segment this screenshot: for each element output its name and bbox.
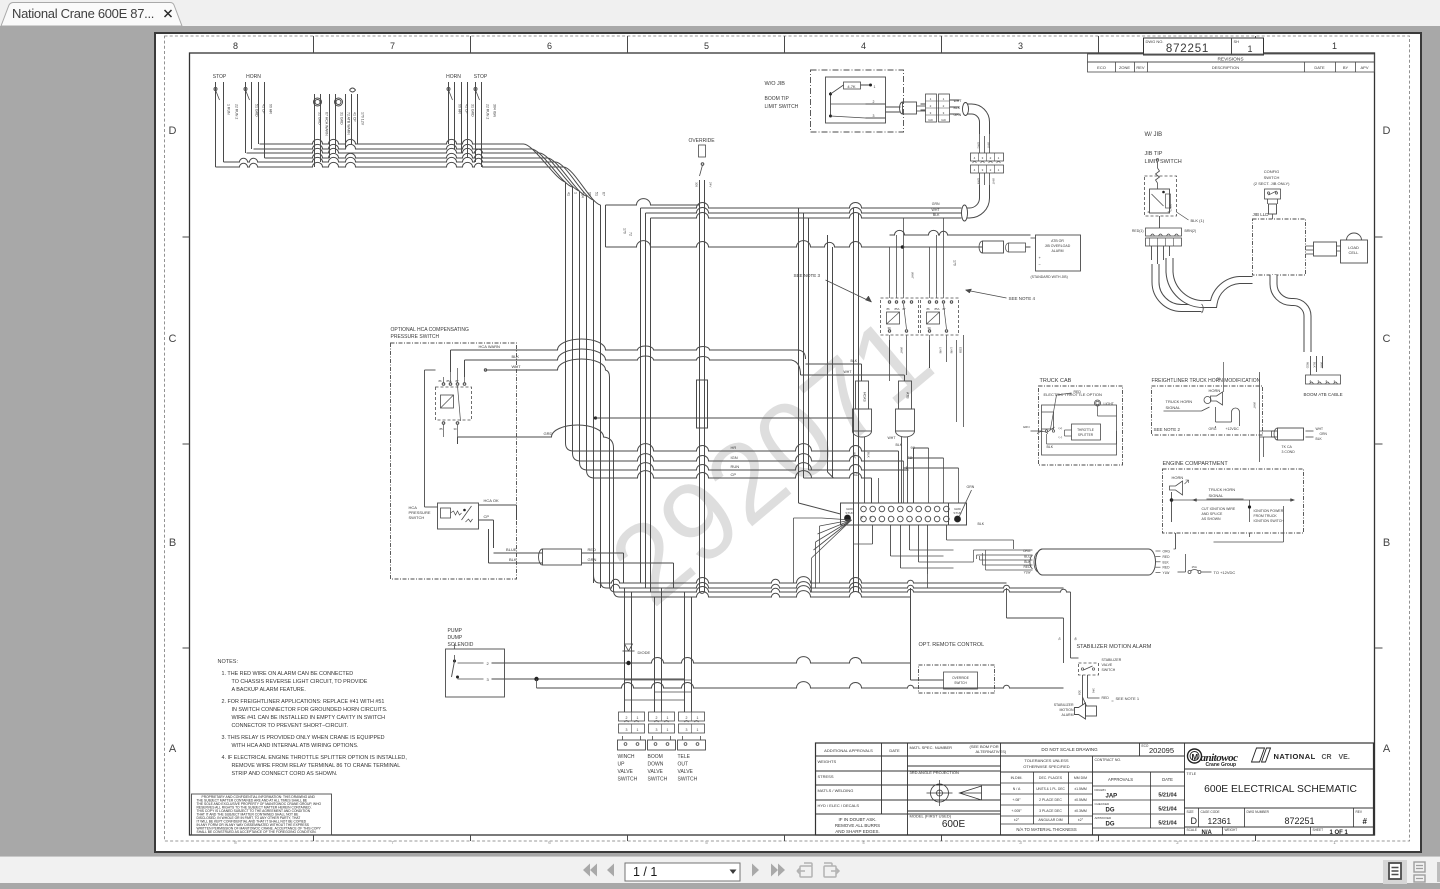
svg-text:THROTTLE: THROTTLE xyxy=(1077,428,1094,432)
svg-text:ADDITIONAL APPROVALS: ADDITIONAL APPROVALS xyxy=(824,748,873,753)
svg-text:SEE NOTE 1: SEE NOTE 1 xyxy=(1115,696,1139,701)
svg-text:OTHERWISE SPECIFIED: OTHERWISE SPECIFIED xyxy=(1023,764,1069,769)
svg-text:2: 2 xyxy=(655,716,657,720)
svg-text:SH: SH xyxy=(1233,39,1239,44)
svg-text:3 PLACE DEC: 3 PLACE DEC xyxy=(1039,809,1062,813)
svg-text:OVERRIDE: OVERRIDE xyxy=(688,138,715,144)
svg-text:STOP: STOP xyxy=(212,74,226,80)
svg-text:±1.5MM: ±1.5MM xyxy=(1074,787,1087,791)
svg-text:TO +12VDC: TO +12VDC xyxy=(1213,570,1235,575)
svg-text:IN.DIM.: IN.DIM. xyxy=(1010,776,1022,780)
svg-text:2: 2 xyxy=(942,104,944,108)
svg-text:N / A: N / A xyxy=(1012,787,1020,791)
svg-text:4.7K: 4.7K xyxy=(847,84,856,89)
svg-text:SWITCH: SWITCH xyxy=(408,515,424,520)
svg-text:179: 179 xyxy=(952,260,956,266)
svg-text:72 ATB WARN: 72 ATB WARN xyxy=(346,112,350,135)
svg-text:SWITCH: SWITCH xyxy=(677,777,697,783)
svg-text:WEIGHT: WEIGHT xyxy=(1224,828,1237,832)
svg-text:8: 8 xyxy=(234,840,237,845)
svg-text:85A: 85A xyxy=(894,307,899,311)
svg-text:1: 1 xyxy=(929,97,931,101)
svg-text:ANGULAR DIM: ANGULAR DIM xyxy=(1038,818,1062,822)
svg-text:GRN: GRN xyxy=(1022,425,1029,429)
svg-text:BOOM: BOOM xyxy=(647,754,662,760)
svg-text:15A: 15A xyxy=(1191,565,1196,569)
svg-text:4: 4 xyxy=(862,840,865,845)
svg-text:APV: APV xyxy=(1360,65,1368,70)
svg-text:3: 3 xyxy=(1019,840,1022,845)
svg-text:SPLITTER: SPLITTER xyxy=(1077,433,1093,437)
svg-text:FROM TRUCK: FROM TRUCK xyxy=(1253,514,1277,518)
svg-text:YLW: YLW xyxy=(1162,571,1170,575)
svg-text:C: C xyxy=(1382,333,1390,345)
svg-text:DG: DG xyxy=(1105,808,1114,814)
svg-text:+.08°: +.08° xyxy=(1012,798,1021,802)
svg-text:LHM: LHM xyxy=(949,347,953,354)
svg-text:WHT: WHT xyxy=(991,178,995,185)
svg-text:GD: GD xyxy=(941,118,946,122)
svg-text:WHT: WHT xyxy=(1319,362,1323,369)
svg-text:600E ELECTRICAL SCHEMATIC: 600E ELECTRICAL SCHEMATIC xyxy=(1204,784,1357,795)
svg-text:ZONE: ZONE xyxy=(1118,65,1129,70)
svg-text:WHT: WHT xyxy=(1315,427,1323,431)
svg-text:99 HR: 99 HR xyxy=(457,104,461,114)
svg-text:B: B xyxy=(168,537,175,549)
svg-text:RED: RED xyxy=(587,547,596,552)
svg-text:DESCRIPTION: DESCRIPTION xyxy=(1211,65,1238,70)
svg-text:3: 3 xyxy=(625,728,627,732)
svg-text:LIMIT SWITCH: LIMIT SWITCH xyxy=(764,104,798,110)
svg-text:86: 86 xyxy=(438,379,442,383)
svg-text:DATE: DATE xyxy=(1162,777,1173,782)
svg-text:BLK: BLK xyxy=(1046,445,1053,449)
svg-text:CAGE CODE: CAGE CODE xyxy=(1200,810,1219,814)
svg-text:1 RUN: 1 RUN xyxy=(226,104,230,115)
svg-text:41 CP: 41 CP xyxy=(352,112,356,122)
svg-text:TELE: TELE xyxy=(677,754,690,760)
svg-text:HCA WARN: HCA WARN xyxy=(478,344,500,349)
svg-text:NATIONAL: NATIONAL xyxy=(1273,752,1315,761)
svg-text:FREIGHTLINER TRUCK HORN MOD: FREIGHTLINER TRUCK HORN MODIFICATION xyxy=(1151,378,1260,384)
svg-text:SIZE: SIZE xyxy=(1186,810,1193,814)
svg-text:4: 4 xyxy=(973,156,975,160)
svg-text:1: 1 xyxy=(636,716,638,720)
svg-text:REVISIONS: REVISIONS xyxy=(1217,57,1243,63)
svg-text:DO NOT SCALE DRAWING: DO NOT SCALE DRAWING xyxy=(1041,747,1098,752)
svg-text:51: 51 xyxy=(594,192,598,196)
svg-text:3: 3 xyxy=(929,111,931,115)
svg-text:D: D xyxy=(168,125,176,137)
svg-text:30: 30 xyxy=(887,326,891,330)
svg-text:±2°: ±2° xyxy=(1077,818,1083,822)
svg-text:41 CP: 41 CP xyxy=(261,104,265,114)
svg-text:SOLENOID: SOLENOID xyxy=(447,642,473,648)
svg-text:BLK: BLK xyxy=(1312,362,1316,368)
svg-text:1: 1 xyxy=(636,728,638,732)
svg-text:RED: RED xyxy=(1101,696,1109,700)
svg-text:GRN: GRN xyxy=(931,202,939,206)
svg-text:MAT'LS / WELDING: MAT'LS / WELDING xyxy=(817,788,853,793)
svg-text:DOWN: DOWN xyxy=(647,762,663,768)
svg-text:51 GRD: 51 GRD xyxy=(254,104,258,117)
svg-text:M: M xyxy=(1191,753,1198,762)
svg-text:TO CHASSIS REVERSE LIGHT CIRCU: TO CHASSIS REVERSE LIGHT CIRCUIT, TO PRO… xyxy=(231,679,367,685)
svg-text:DRAWN: DRAWN xyxy=(1094,788,1105,792)
svg-text:1: 1 xyxy=(696,716,698,720)
svg-text:DATE: DATE xyxy=(889,748,900,753)
svg-text:WHT: WHT xyxy=(899,347,903,354)
svg-text:VALVE: VALVE xyxy=(677,769,693,775)
svg-text:IGN: IGN xyxy=(730,455,737,460)
svg-text:SWITCH: SWITCH xyxy=(617,777,637,783)
svg-text:3: 3 xyxy=(655,728,657,732)
svg-text:5/21/04: 5/21/04 xyxy=(1158,821,1177,827)
svg-text:LHM: LHM xyxy=(938,347,942,354)
svg-text:346: 346 xyxy=(1091,688,1095,693)
svg-text:CONNECTOR TO PREVENT SHORT−CIR: CONNECTOR TO PREVENT SHORT−CIRCUIT. xyxy=(231,723,347,729)
svg-text:GRN: GRN xyxy=(587,557,596,562)
svg-text:3: 3 xyxy=(942,111,944,115)
svg-text:MAT'L SPEC. NUMBER: MAT'L SPEC. NUMBER xyxy=(909,745,952,750)
svg-text:CP: CP xyxy=(730,472,736,477)
svg-text:4: 4 xyxy=(860,41,865,51)
svg-text:SIGNAL: SIGNAL xyxy=(1165,405,1180,410)
svg-text:7: 7 xyxy=(389,41,394,51)
svg-text:SWITCH: SWITCH xyxy=(1101,668,1115,672)
svg-text:TOLERANCES UNLESS: TOLERANCES UNLESS xyxy=(1024,758,1068,763)
svg-text:HORN: HORN xyxy=(446,74,461,80)
svg-text:2: 2 xyxy=(1176,840,1179,845)
svg-text:ENGINE COMPARTMENT: ENGINE COMPARTMENT xyxy=(1162,461,1228,467)
svg-text:85: 85 xyxy=(439,427,443,431)
svg-text:VALVE: VALVE xyxy=(617,769,633,775)
svg-text:±2°: ±2° xyxy=(1013,818,1019,822)
svg-text:SWITCH: SWITCH xyxy=(647,777,667,783)
svg-text:WITH HCA AND INTERNAL ATB WIRI: WITH HCA AND INTERNAL ATB WIRING OPTIONS… xyxy=(231,743,358,749)
svg-text:45: 45 xyxy=(1073,637,1077,641)
svg-text:1: 1 xyxy=(873,85,875,89)
svg-text:STOP: STOP xyxy=(473,74,487,80)
svg-text:3: 3 xyxy=(981,168,983,172)
svg-text:872251: 872251 xyxy=(1165,43,1208,55)
svg-text:DWG NO.: DWG NO. xyxy=(1145,39,1163,44)
svg-text:N/A TO MATERIAL THICKNESS: N/A TO MATERIAL THICKNESS xyxy=(1016,827,1076,832)
svg-text:JIB LLD: JIB LLD xyxy=(1252,212,1269,217)
svg-text:AND SPLICE: AND SPLICE xyxy=(1201,512,1222,516)
svg-text:C: C xyxy=(168,333,176,345)
svg-text:HCAS: HCAS xyxy=(862,392,866,402)
svg-text:WHT: WHT xyxy=(887,436,896,440)
svg-text:MODEL (FIRST USED): MODEL (FIRST USED) xyxy=(909,814,951,819)
svg-text:12361: 12361 xyxy=(1207,816,1231,826)
svg-text:GRN: GRN xyxy=(1319,432,1327,436)
svg-text:179: 179 xyxy=(622,228,626,234)
svg-text:5/21/04: 5/21/04 xyxy=(1158,807,1177,813)
svg-text:BLK: BLK xyxy=(508,557,516,562)
svg-text:A: A xyxy=(1382,743,1390,755)
svg-text:2 PLACE DEC: 2 PLACE DEC xyxy=(1039,798,1062,802)
svg-text:WHT: WHT xyxy=(986,142,990,149)
svg-text:BLK: BLK xyxy=(1315,437,1322,441)
svg-text:+: + xyxy=(1038,255,1041,260)
svg-text:41: 41 xyxy=(853,472,858,477)
svg-text:±0.3MM: ±0.3MM xyxy=(1074,809,1087,813)
svg-text:22 RUN 2: 22 RUN 2 xyxy=(234,104,238,119)
svg-text:WHT: WHT xyxy=(910,272,914,279)
svg-text:LIGHT: LIGHT xyxy=(1103,402,1114,406)
svg-text:202095: 202095 xyxy=(1148,746,1173,755)
svg-text:3: 3 xyxy=(685,728,687,732)
svg-text:1: 1 xyxy=(997,156,999,160)
svg-text:STRIP AND CONNECT CORD AS SHOW: STRIP AND CONNECT CORD AS SHOWN. xyxy=(231,771,337,777)
svg-text:JIB TIP: JIB TIP xyxy=(1144,151,1162,157)
svg-text:STRESS: STRESS xyxy=(817,774,833,779)
svg-text:2: 2 xyxy=(989,156,991,160)
svg-text:WHT: WHT xyxy=(931,208,940,212)
svg-text:87: 87 xyxy=(902,307,906,311)
svg-text:SEE NOTE 2: SEE NOTE 2 xyxy=(1153,427,1180,432)
svg-text:HR: HR xyxy=(730,445,736,450)
svg-text:REMOVE ALL BURRS: REMOVE ALL BURRS xyxy=(834,823,879,828)
svg-text:1: 1 xyxy=(997,168,999,172)
svg-text:CHECKED: CHECKED xyxy=(1094,802,1110,806)
svg-text:ECO: ECO xyxy=(1097,65,1106,70)
svg-text:BOOM ATB CABLE: BOOM ATB CABLE xyxy=(1303,392,1342,397)
svg-text:±0.5MM: ±0.5MM xyxy=(1074,798,1087,802)
svg-text:W/O JIB: W/O JIB xyxy=(764,81,785,87)
svg-text:31 GRD: 31 GRD xyxy=(339,112,343,125)
svg-text:SIGNAL: SIGNAL xyxy=(1208,493,1223,498)
svg-text:GRD: GRD xyxy=(543,431,552,436)
svg-text:1: 1 xyxy=(1331,41,1336,51)
svg-text:DUMP: DUMP xyxy=(447,635,462,641)
svg-text:NOTES:: NOTES: xyxy=(217,659,238,665)
svg-text:MM DIM: MM DIM xyxy=(1073,776,1086,780)
svg-text:30: 30 xyxy=(927,326,931,330)
svg-text:RED: RED xyxy=(1162,555,1170,559)
svg-text:OUT: OUT xyxy=(677,762,688,768)
svg-text:1: 1 xyxy=(666,728,668,732)
svg-text:3 COND: 3 COND xyxy=(1281,450,1295,454)
svg-text:TK CA: TK CA xyxy=(1281,445,1292,449)
svg-text:31 GRD: 31 GRD xyxy=(470,104,474,117)
svg-text:3RD ANGLE PROJECTION: 3RD ANGLE PROJECTION xyxy=(909,770,958,775)
svg-text:SEE NOTE 3: SEE NOTE 3 xyxy=(793,273,820,278)
svg-text:BLK: BLK xyxy=(850,359,857,363)
svg-text:2: 2 xyxy=(685,716,687,720)
svg-text:87: 87 xyxy=(942,307,946,311)
svg-text:6: 6 xyxy=(546,41,551,51)
svg-text:BLK: BLK xyxy=(866,452,870,458)
svg-text:304 IGN: 304 IGN xyxy=(492,104,496,118)
svg-text:67: 67 xyxy=(601,192,605,196)
svg-text:85A: 85A xyxy=(934,307,939,311)
svg-text:CONFIG: CONFIG xyxy=(1263,169,1279,174)
svg-text:DEC. PLACES: DEC. PLACES xyxy=(1038,776,1062,780)
svg-text:(+): (+) xyxy=(1058,426,1062,430)
svg-text:WIRE #41 CAN BE INSTALLED IN E: WIRE #41 CAN BE INSTALLED IN EMPTY CAVIT… xyxy=(231,715,385,721)
svg-text:A BACKUP ALARM FEATURE.: A BACKUP ALARM FEATURE. xyxy=(231,687,305,693)
svg-text:1: 1 xyxy=(1247,44,1252,54)
svg-text:VALVE: VALVE xyxy=(647,769,663,775)
svg-text:22 RUN 2: 22 RUN 2 xyxy=(485,104,489,119)
svg-text:SHALL BE CONSTRUED AS ACCEPTAN: SHALL BE CONSTRUED AS ACCEPTANCE OF THE … xyxy=(196,830,316,834)
svg-text:22: 22 xyxy=(1216,377,1220,381)
svg-text:2: 2 xyxy=(929,104,931,108)
svg-text:DG: DG xyxy=(1105,822,1114,828)
svg-text:CONTRACT NO.: CONTRACT NO. xyxy=(1094,758,1121,762)
svg-text:EDB: EDB xyxy=(958,347,962,353)
svg-text:STUD: STUD xyxy=(845,511,854,515)
svg-text:IN SWITCH CONNECTOR FOR GROUND: IN SWITCH CONNECTOR FOR GROUNDED HORN CI… xyxy=(231,707,387,713)
svg-text:99: 99 xyxy=(587,192,591,196)
svg-text:DIODE: DIODE xyxy=(637,650,650,655)
svg-text:(STANDARD WITH JIB): (STANDARD WITH JIB) xyxy=(1030,275,1067,279)
svg-text:HORN: HORN xyxy=(246,74,261,80)
svg-text:1 OF 1: 1 OF 1 xyxy=(1329,830,1348,836)
svg-text:292071: 292071 xyxy=(587,292,954,628)
svg-text:(−): (−) xyxy=(1058,435,1062,439)
svg-text:OVERRIDE: OVERRIDE xyxy=(952,676,969,680)
svg-text:#: # xyxy=(1362,817,1367,826)
svg-text:3: 3 xyxy=(1017,41,1022,51)
svg-text:4. IF ELECTRICAL ENGINE THRO: 4. IF ELECTRICAL ENGINE THROTTLE SPLITTE… xyxy=(221,755,407,761)
svg-text:8: 8 xyxy=(232,41,237,51)
svg-text:LIMIT SWITCH: LIMIT SWITCH xyxy=(1144,159,1181,165)
svg-text:TRUCK HORN: TRUCK HORN xyxy=(1208,487,1235,492)
svg-text:(2 SECT. JIB ONLY): (2 SECT. JIB ONLY) xyxy=(1253,181,1290,186)
svg-text:B: B xyxy=(1382,537,1389,549)
svg-text:WHT: WHT xyxy=(511,364,521,369)
svg-text:BRN(2): BRN(2) xyxy=(1184,229,1196,233)
svg-text:ORG: ORG xyxy=(1162,550,1170,554)
svg-text:SCALE: SCALE xyxy=(1186,828,1196,832)
svg-text:IF IN DOUBT ASK.: IF IN DOUBT ASK. xyxy=(838,817,876,822)
svg-text:31 GRD: 31 GRD xyxy=(317,112,321,125)
svg-text:309: 309 xyxy=(1077,690,1081,695)
svg-text:GRN: GRN xyxy=(976,178,980,184)
svg-text:41: 41 xyxy=(566,192,570,196)
svg-text:HORN: HORN xyxy=(1208,388,1220,393)
svg-text:308: 308 xyxy=(694,182,698,187)
svg-text:1: 1 xyxy=(696,728,698,732)
svg-text:YLW: YLW xyxy=(1023,571,1031,575)
svg-text:PUMP: PUMP xyxy=(447,628,462,634)
svg-text:ALTERNATIVES): ALTERNATIVES) xyxy=(975,749,1006,754)
svg-text:ALARM: ALARM xyxy=(1051,249,1063,253)
svg-text:24V: 24V xyxy=(708,182,712,187)
svg-text:1: 1 xyxy=(573,192,577,194)
svg-text:VALVE: VALVE xyxy=(1101,663,1112,667)
svg-text:3: 3 xyxy=(872,114,874,118)
svg-text:DWG NUMBER: DWG NUMBER xyxy=(1246,810,1269,814)
svg-text:IGNITION POWER: IGNITION POWER xyxy=(1253,509,1283,513)
svg-text:A: A xyxy=(168,743,176,755)
svg-text:ATB: ATB xyxy=(905,392,909,399)
svg-text:2: 2 xyxy=(625,716,627,720)
svg-text:600E: 600E xyxy=(941,819,965,830)
svg-text:WINCH: WINCH xyxy=(617,754,634,760)
svg-text:REV: REV xyxy=(1136,65,1145,70)
svg-text:67 HCA WARN: 67 HCA WARN xyxy=(324,112,328,136)
svg-text:41 CP: 41 CP xyxy=(464,104,468,114)
svg-text:D: D xyxy=(1382,125,1390,137)
svg-text:National Crane 600E 87...: National Crane 600E 87... xyxy=(12,6,154,21)
svg-text:GRN: GRN xyxy=(966,485,974,489)
svg-text:AND SHARP EDGES.: AND SHARP EDGES. xyxy=(835,829,879,834)
svg-text:RED: RED xyxy=(1073,390,1081,394)
svg-text:BOOM TIP: BOOM TIP xyxy=(764,96,789,102)
svg-text:REMOVE WIRE FROM RELAY TERMINA: REMOVE WIRE FROM RELAY TERMINAL 86 TO CR… xyxy=(231,763,400,769)
svg-text:JAP: JAP xyxy=(1105,794,1117,800)
svg-text:BLK (1): BLK (1) xyxy=(1190,218,1204,223)
svg-text:ATB OR: ATB OR xyxy=(1051,239,1064,243)
svg-text:3. THIS RELAY IS PROVIDED ONL: 3. THIS RELAY IS PROVIDED ONLY WHEN CRAN… xyxy=(221,735,384,741)
svg-text:WEIGHTS: WEIGHTS xyxy=(817,759,836,764)
svg-text:UNITS & 1 PL. DEC: UNITS & 1 PL. DEC xyxy=(1036,787,1065,791)
svg-text:STABILIZER: STABILIZER xyxy=(1053,703,1073,707)
svg-text:WHT: WHT xyxy=(843,370,852,374)
svg-text:872251: 872251 xyxy=(1284,816,1314,826)
svg-text:1: 1 xyxy=(942,97,944,101)
svg-text:SEE NOTE 4: SEE NOTE 4 xyxy=(1008,296,1035,301)
svg-text:DATE: DATE xyxy=(1314,65,1325,70)
svg-text:+.005°: +.005° xyxy=(1011,809,1022,813)
svg-text:RED: RED xyxy=(1162,566,1170,570)
svg-text:BLK: BLK xyxy=(932,213,939,217)
svg-text:AS SHOWN: AS SHOWN xyxy=(1201,517,1221,521)
svg-text:ECO: ECO xyxy=(1141,744,1148,748)
svg-text:179 12V: 179 12V xyxy=(360,112,364,126)
svg-text:BLK: BLK xyxy=(895,443,902,447)
svg-text:3: 3 xyxy=(981,156,983,160)
svg-text:UP: UP xyxy=(617,762,625,768)
svg-text:PRESSURE SWITCH: PRESSURE SWITCH xyxy=(390,334,439,340)
svg-text:ALARM: ALARM xyxy=(1061,713,1073,717)
svg-text:Crane Group: Crane Group xyxy=(1205,762,1236,768)
svg-text:STABILIZER MOTION ALARM: STABILIZER MOTION ALARM xyxy=(1076,644,1151,650)
svg-text:W/ JIB: W/ JIB xyxy=(1144,132,1162,138)
svg-text:APPROVALS: APPROVALS xyxy=(1107,777,1132,782)
svg-text:−: − xyxy=(1038,262,1041,267)
svg-text:TRUCK CAB: TRUCK CAB xyxy=(1039,378,1071,384)
svg-text:2. FOR FREIGHTLINER APPLICATI: 2. FOR FREIGHTLINER APPLICATIONS: REPLAC… xyxy=(221,699,384,705)
svg-text:D: D xyxy=(1190,816,1197,826)
svg-text:5: 5 xyxy=(703,41,708,51)
svg-text:SWITCH: SWITCH xyxy=(1263,175,1279,180)
svg-text:HORN: HORN xyxy=(1171,475,1183,480)
svg-text:72: 72 xyxy=(628,232,632,236)
svg-text:BLK: BLK xyxy=(1162,560,1169,564)
svg-text:CP: CP xyxy=(483,514,489,519)
svg-text:IGNITION SWITCH: IGNITION SWITCH xyxy=(1253,519,1284,523)
svg-text:86: 86 xyxy=(926,307,930,311)
svg-text:HCA OK: HCA OK xyxy=(483,498,498,503)
svg-text:5/21/04: 5/21/04 xyxy=(1158,793,1177,799)
svg-text:JIB OVERLOAD: JIB OVERLOAD xyxy=(1044,244,1070,248)
svg-text:BLK: BLK xyxy=(977,522,984,526)
svg-text:HYD / ELEC / DECALS: HYD / ELEC / DECALS xyxy=(817,803,859,808)
svg-text:VE.: VE. xyxy=(1338,754,1349,761)
svg-text:SWITCH: SWITCH xyxy=(954,681,967,685)
svg-text:1. THE RED WIRE ON ALARM CAN: 1. THE RED WIRE ON ALARM CAN BE CONNECTE… xyxy=(221,671,353,677)
svg-text:ORG: ORG xyxy=(976,142,980,148)
svg-text:4: 4 xyxy=(973,168,975,172)
svg-text:2: 2 xyxy=(486,661,489,666)
svg-text:WHT: WHT xyxy=(1252,402,1256,409)
svg-text:CELL: CELL xyxy=(1348,250,1359,255)
